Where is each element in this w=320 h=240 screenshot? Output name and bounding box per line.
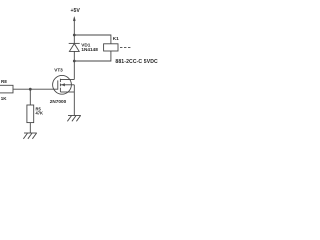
R8 label: [1, 79, 7, 84]
wire R5 to ground: [29, 123, 31, 133]
wire +5V arrow to top junction: [73, 19, 75, 35]
ground (transistor source): [67, 116, 80, 122]
2N7000 value label: [50, 99, 67, 104]
VD1 label: [81, 42, 91, 47]
relay K1 coil box: [104, 44, 118, 51]
svg-text:VT3: VT3: [54, 67, 63, 72]
wire R8 to gate: [13, 88, 58, 90]
drain stub: [60, 79, 74, 81]
transistor VT3 (2N7000 N-MOSFET): [53, 75, 75, 94]
relay actuator dashed line: [120, 46, 131, 48]
VT3 label: [54, 67, 63, 72]
diode VD1: [69, 35, 80, 61]
svg-text:881-2CC-C 5VDC: 881-2CC-C 5VDC: [115, 59, 158, 65]
channel dashes: [59, 79, 61, 82]
source stub: [60, 91, 74, 93]
wire drain lead: [73, 61, 75, 80]
wire source to ground: [73, 92, 75, 116]
svg-text:2N7000: 2N7000: [50, 99, 67, 104]
resistor R8: [0, 85, 13, 93]
relay part number label 881-2CC-C 5VDC: [115, 59, 158, 65]
svg-text:47K: 47K: [36, 111, 44, 116]
svg-text:K1: K1: [113, 36, 119, 41]
wire relay coil bottom to bottom junction: [74, 51, 111, 61]
body tied to source lead: [73, 85, 75, 92]
K1 label: [113, 36, 119, 41]
47K value label: [36, 111, 44, 116]
+5V power label: [71, 8, 81, 14]
node gate junction: [29, 88, 32, 91]
body stub with arrow: [60, 84, 74, 86]
wire top junction to relay coil top: [74, 35, 111, 44]
node top junction: [73, 34, 76, 37]
ground (R5): [23, 133, 36, 139]
+5V power arrow: [73, 17, 75, 21]
R5 label: [36, 107, 42, 112]
svg-text:1K: 1K: [1, 96, 8, 101]
1K value label: [1, 96, 8, 101]
svg-text:+5V: +5V: [71, 8, 81, 14]
1N4148 value label: [81, 47, 98, 52]
wire gate junction down to R5: [29, 89, 31, 105]
node bottom junction: [73, 60, 76, 63]
resistor R5: [27, 105, 34, 123]
gate bar: [57, 80, 59, 89]
svg-text:1N4148: 1N4148: [81, 47, 98, 52]
svg-text:R8: R8: [1, 79, 7, 84]
